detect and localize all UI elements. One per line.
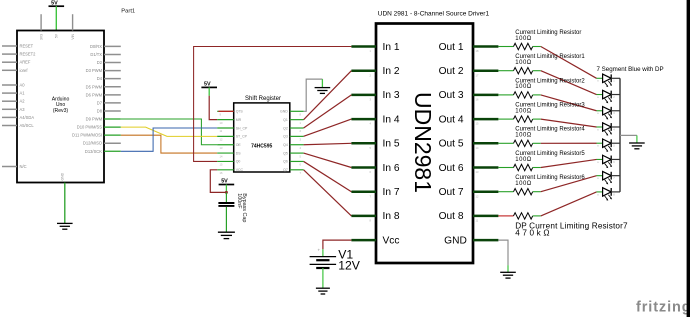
pin Q0 (74HC595 left) (217, 160, 240, 167)
svg-text:Out 3: Out 3 (439, 90, 464, 101)
svg-text:Q5: Q5 (283, 151, 288, 155)
wire GND of 74HC595 to ground (grey) (304, 79, 323, 111)
svg-text:D2: D2 (97, 60, 103, 65)
svg-text:fritzing: fritzing (636, 300, 690, 316)
svg-text:ST_CP: ST_CP (236, 135, 248, 139)
svg-text:Out 8: Out 8 (439, 211, 464, 222)
pin A0 (Arduino left) (2, 83, 25, 88)
resistor R2 Current Limiting Resistor1 100 ohm (498, 54, 585, 74)
LED segment 5 (7-seg) (597, 139, 621, 152)
resistor R3 Current Limiting Resistor2 100 ohm (498, 78, 585, 98)
svg-text:GND: GND (280, 110, 288, 114)
pin Q1 (74HC595 right) (283, 118, 303, 125)
pin Out 6 (UDN2981) (439, 163, 499, 174)
pin D1/TX (Arduino right) (90, 52, 120, 57)
pin GND (Arduino bottom) (61, 172, 65, 223)
svg-text:D12/MISO: D12/MISO (83, 141, 102, 146)
wire Q0 to In 1 (dark red) (194, 47, 352, 162)
pin MR (74HC595 left) (217, 118, 241, 125)
svg-text:D3 PWM: D3 PWM (86, 68, 103, 73)
label 7 Segment Blue with DP (597, 66, 664, 73)
svg-text:Q1: Q1 (283, 118, 288, 122)
svg-text:5V: 5V (55, 33, 59, 38)
svg-text:UDN 2981 - 8-Channel Source Dr: UDN 2981 - 8-Channel Source Driver1 (378, 10, 490, 17)
svg-text:74HC595: 74HC595 (251, 143, 272, 149)
pin Out 7 (UDN2981) (439, 187, 499, 198)
svg-text:Shift Register: Shift Register (245, 96, 281, 102)
svg-text:SH_CP: SH_CP (236, 126, 248, 130)
pin D13/SCK (Arduino right) (85, 149, 121, 154)
pin Out 5 (UDN2981) (439, 139, 499, 150)
svg-text:D9 PWM: D9 PWM (86, 117, 103, 122)
svg-text:Q2: Q2 (283, 126, 288, 130)
svg-text:Q7S: Q7S (236, 110, 244, 114)
svg-text:OE: OE (236, 143, 242, 147)
wire Q5 to In 6 (dark red) (304, 153, 352, 167)
pin A5/SCL (Arduino left) (2, 123, 34, 128)
label Part1 (121, 8, 135, 14)
LED segment 3 (7-seg) (597, 107, 621, 120)
svg-text:7 Segment Blue with DP: 7 Segment Blue with DP (597, 66, 664, 73)
pin A4/SDA (Arduino left) (2, 115, 34, 120)
pin OE (74HC595 left) (217, 143, 241, 150)
pin VIN (Arduino top) (71, 14, 75, 39)
svg-text:ioref: ioref (20, 68, 29, 73)
svg-text:RESET: RESET (20, 44, 34, 49)
wire Q2 to In 3 (dark red) (304, 95, 352, 128)
svg-text:Part1: Part1 (121, 8, 135, 14)
svg-text:Out 1: Out 1 (439, 42, 464, 53)
pin In 4 (UDN2981) (351, 114, 399, 125)
pin AREF (Arduino left) (2, 60, 31, 65)
svg-text:RESET2: RESET2 (20, 52, 37, 57)
pin N/C (Arduino left) (2, 164, 27, 169)
svg-text:Vcc: Vcc (383, 235, 400, 246)
svg-text:In 5: In 5 (383, 139, 400, 150)
svg-text:100Ω: 100Ω (515, 84, 532, 90)
svg-text:Out 5: Out 5 (439, 139, 464, 150)
pin In 2 (UDN2981) (351, 66, 399, 77)
svg-text:DS: DS (236, 151, 242, 155)
pin A3 (Arduino left) (2, 107, 25, 112)
wire battery - to ground (green) (322, 268, 324, 288)
svg-text:100Ω: 100Ω (515, 60, 532, 66)
wire D9 PWM to OE (green) (121, 119, 217, 145)
wire resistor R6 to LED 6 anode (dark red) (541, 159, 597, 167)
svg-text:100Ω: 100Ω (515, 108, 532, 114)
svg-text:3V3: 3V3 (39, 34, 43, 40)
wire resistor R2 to LED 2 anode (dark red) (541, 71, 597, 95)
svg-text:Out 7: Out 7 (439, 187, 464, 198)
pin 5V label (Arduino top) (55, 33, 59, 38)
pin Vcc (UDN2981) (351, 235, 399, 246)
battery V1 12V (310, 247, 361, 272)
wire Q4 to In 5 (dark red) (304, 143, 352, 144)
svg-text:D5 PWM: D5 PWM (86, 84, 103, 89)
svg-text:D1/TX: D1/TX (90, 52, 102, 57)
power symbol 5V (bypass cap) (219, 179, 235, 185)
pin Out 8 (UDN2981) (439, 211, 499, 222)
pin D5 PWM (Arduino right) (86, 84, 121, 89)
pin Q7 (74HC595 right) (283, 168, 303, 175)
pin D8 (Arduino right) (97, 108, 121, 113)
driver U3 UDN2981 body (376, 24, 473, 264)
svg-text:D7: D7 (97, 100, 103, 105)
resistor R5 Current Limiting Resistor4 100 ohm (498, 127, 585, 147)
svg-text:A4/SDA: A4/SDA (20, 115, 35, 120)
driver U3 UDN2981 title (378, 10, 490, 17)
wire VCC of 74HC595 to 5V/cap junction (dark red) (210, 170, 226, 193)
pin GND (UDN2981) (444, 235, 498, 246)
svg-text:Q6: Q6 (283, 160, 288, 164)
svg-text:Out 4: Out 4 (439, 114, 464, 125)
pin GND (74HC595 right) (280, 110, 304, 117)
wire D13/SCK to SH_CP (blue) (121, 128, 217, 151)
pin Out 1 (UDN2981) (439, 42, 499, 53)
LED segment 7 (7-seg) (597, 171, 621, 184)
svg-text:MR: MR (236, 118, 242, 122)
pin D7 (Arduino right) (97, 100, 121, 105)
pin ioref (Arduino left) (2, 68, 28, 73)
wire D11 PWM/MOSI to DS (orange) (121, 135, 217, 153)
wire Q6 to In 7 (dark red) (304, 161, 352, 191)
wire 5V bar to junction (225, 185, 227, 193)
pin D10 PWM/SS (Arduino right) (77, 125, 121, 130)
svg-text:+: + (318, 248, 321, 253)
pin D3 PWM (Arduino right) (86, 68, 121, 73)
resistor R4 Current Limiting Resistor3 100 ohm (498, 103, 585, 123)
svg-text:100Ω: 100Ω (515, 181, 532, 187)
pin In 8 (UDN2981) (351, 211, 399, 222)
pin Q3 (74HC595 right) (283, 135, 303, 142)
svg-text:In 4: In 4 (383, 114, 400, 125)
pin Q2 (74HC595 right) (283, 126, 303, 133)
pin Q7S (74HC595 left) (217, 110, 243, 117)
ground (below Arduino) (57, 223, 73, 229)
svg-text:In 2: In 2 (383, 66, 400, 77)
svg-text:D13/SCK: D13/SCK (85, 149, 102, 154)
svg-text:D11 PWM/MOSI: D11 PWM/MOSI (72, 133, 102, 138)
ground (7-seg common) (629, 143, 645, 149)
wire resistor R5 to LED 5 anode (dark red) (541, 142, 597, 144)
svg-text:D4: D4 (97, 76, 103, 81)
svg-text:12V: 12V (338, 259, 361, 273)
wire Q1 to In 2 (dark red) (304, 71, 352, 120)
resistor R7 Current Limiting Resistor6 100 ohm (498, 175, 585, 195)
svg-text:D10 PWM/SS: D10 PWM/SS (77, 125, 103, 130)
wire resistor R7 to LED 7 anode (dark red) (541, 176, 597, 192)
svg-text:100Ω: 100Ω (515, 133, 532, 139)
svg-text:VCC: VCC (236, 168, 244, 172)
pin D0/RX (Arduino right) (90, 44, 121, 49)
svg-text:In 3: In 3 (383, 90, 400, 101)
pin D4 (Arduino right) (97, 76, 121, 81)
pin RESET2 (Arduino left) (2, 52, 36, 57)
LED segment 2 (7-seg) (597, 90, 621, 103)
wire resistor R3 to LED 3 anode (dark red) (541, 95, 597, 111)
LED segment 6 (7-seg) (597, 155, 621, 168)
svg-text:D0/RX: D0/RX (90, 44, 102, 49)
pin SH_CP (74HC595 left) (217, 126, 248, 133)
pin Out 4 (UDN2981) (439, 114, 499, 125)
pin Q5 (74HC595 right) (283, 151, 303, 158)
svg-text:Out 2: Out 2 (439, 66, 464, 77)
pin DS (74HC595 left) (217, 151, 241, 158)
pin D2 (Arduino right) (97, 60, 121, 65)
power symbol 5V (Arduino) (49, 0, 65, 6)
wire Q7 to In 8 (dark red) (304, 170, 352, 216)
pin Out 2 (UDN2981) (439, 66, 499, 77)
svg-text:AREF: AREF (20, 60, 31, 65)
capacitor C1 Bypass Cap 100nF (218, 192, 247, 232)
svg-text:In 8: In 8 (383, 211, 400, 222)
ground (below UDN2981 GND) (500, 272, 516, 278)
pin A2 (Arduino left) (2, 99, 25, 104)
svg-text:N/C: N/C (20, 164, 27, 169)
svg-text:100Ω: 100Ω (515, 157, 532, 163)
resistor R1 Current Limiting Resistor 100 ohm (498, 30, 581, 50)
LED segment 1 (7-seg) (597, 74, 621, 87)
svg-text:GND: GND (61, 172, 65, 180)
pin D6 PWM (Arduino right) (86, 92, 121, 97)
svg-text:A1: A1 (20, 91, 26, 96)
junction dot (cap / 5V / VCC) (225, 191, 228, 194)
watermark fritzing (636, 300, 690, 316)
pin D12/MISO (Arduino right) (83, 141, 121, 146)
svg-text:Q3: Q3 (283, 135, 288, 139)
svg-text:In 1: In 1 (383, 42, 400, 53)
svg-text:Q7: Q7 (283, 168, 288, 172)
shift register U2 74HC595 body (234, 96, 290, 172)
pin A1 (Arduino left) (2, 91, 25, 96)
wire 5V symbol to Arduino 5V pin (55, 6, 57, 30)
right edge black bar (687, 0, 690, 317)
svg-text:A2: A2 (20, 99, 26, 104)
svg-text:A3: A3 (20, 107, 26, 112)
svg-text:VIN: VIN (71, 33, 75, 39)
svg-text:Q4: Q4 (283, 143, 288, 147)
Arduino U1 (Uno Rev3) body (17, 31, 104, 183)
pin RESET (Arduino left) (2, 44, 34, 49)
pin In 5 (UDN2981) (351, 139, 399, 150)
svg-text:Q0: Q0 (236, 160, 241, 164)
pin In 1 (UDN2981) (351, 42, 399, 53)
svg-text:(Rev3): (Rev3) (53, 108, 69, 114)
power symbol 5V (shift register MR) (201, 82, 217, 88)
LED segment 8 (7-seg) (597, 188, 621, 201)
wire resistor R8 to LED 8 anode (dark red) (541, 192, 597, 216)
wire Q3 to In 4 (dark red) (304, 119, 352, 136)
pin VCC (74HC595 left) (217, 168, 243, 175)
wire common cathode bus (7-seg) (619, 78, 621, 192)
svg-text:A0: A0 (20, 83, 26, 88)
pin 3V3 (Arduino top) (39, 14, 43, 40)
wire D10 PWM/SS to ST_CP (yellow) (121, 127, 217, 136)
wire resistor R1 to LED 1 anode (dark red) (541, 47, 597, 79)
ground (above-right of 74HC595) (315, 88, 331, 94)
svg-text:470kΩ: 470kΩ (515, 229, 552, 238)
wire GND of UDN2981 to ground (grey) (498, 240, 508, 272)
svg-text:100Ω: 100Ω (515, 36, 532, 42)
wire stub Q7S (red, unconnected end) (218, 110, 233, 112)
pin Q6 (74HC595 right) (283, 160, 303, 167)
pin Out 3 (UDN2981) (439, 90, 499, 101)
svg-text:D6 PWM: D6 PWM (86, 92, 103, 97)
LED segment 4 (7-seg) (597, 123, 621, 136)
ground (below battery) (316, 288, 330, 294)
svg-text:D8: D8 (97, 108, 103, 113)
pin In 7 (UDN2981) (351, 187, 399, 198)
svg-text:A5/SCL: A5/SCL (20, 123, 35, 128)
pin D11 PWM/MOSI (Arduino right) (72, 133, 121, 138)
resistor R6 Current Limiting Resistor5 100 ohm (498, 151, 585, 171)
svg-text:100nF: 100nF (236, 193, 242, 209)
resistor R8 DP Current Limiting Resistor7 470k ohm (498, 213, 628, 238)
pin ST_CP (74HC595 left) (217, 135, 247, 142)
svg-text:In 6: In 6 (383, 163, 400, 174)
wire Vcc to battery + (dark red) (323, 240, 352, 256)
pin In 6 (UDN2981) (351, 163, 399, 174)
svg-text:Out 6: Out 6 (439, 163, 464, 174)
pin In 3 (UDN2981) (351, 90, 399, 101)
svg-text:UDN2981: UDN2981 (410, 92, 436, 193)
svg-text:GND: GND (444, 235, 467, 246)
svg-text:In 7: In 7 (383, 187, 400, 198)
wire resistor R4 to LED 4 anode (dark red) (541, 119, 597, 127)
ground (below bypass cap) (218, 232, 235, 238)
pin D9 PWM (Arduino right) (86, 117, 121, 122)
pin Q4 (74HC595 right) (283, 143, 303, 150)
wire 5V to MR (green stub + dark red) (209, 87, 217, 119)
wire bus to ground (grey) (620, 135, 637, 143)
